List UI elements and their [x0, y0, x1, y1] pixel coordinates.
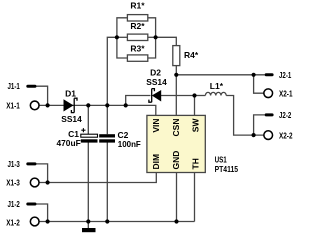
node J1-2 / ground rail: [46, 219, 50, 223]
svg-text:SS14: SS14: [61, 114, 82, 124]
wire resistor bank right rail: [148, 18, 156, 58]
node D2 branch / main rail: [124, 103, 128, 107]
wire C2 top lead: [106, 105, 108, 134]
wire node to J2-1: [176, 74, 264, 76]
svg-text:R3*: R3*: [130, 43, 145, 53]
wire J2-1 node down to X2-1: [254, 75, 265, 93]
svg-text:SS14: SS14: [146, 77, 167, 87]
svg-text:TH: TH: [191, 158, 201, 169]
wire C1 bottom lead to ground rail: [87, 143, 89, 222]
diode D2 SS14: [146, 67, 167, 102]
svg-text:D2: D2: [150, 67, 161, 77]
svg-text:100nF: 100nF: [118, 139, 141, 149]
wire CSN vertical: [175, 75, 177, 116]
svg-text:J2-1: J2-1: [279, 70, 291, 80]
pad X2-1: [264, 89, 293, 99]
node J1-3 / DIM: [46, 180, 50, 184]
wire J1-3 to DIM line: [37, 164, 48, 183]
IC US1 PT4115: [147, 115, 238, 174]
pad X2-2: [264, 130, 293, 140]
pin J2-1: [266, 70, 291, 80]
svg-text:J2-2: J2-2: [279, 110, 291, 120]
svg-text:X2-2: X2-2: [279, 130, 293, 140]
resistor R4: [173, 46, 199, 66]
svg-text:US1: US1: [215, 155, 227, 165]
node J2-1 / X2-1: [252, 73, 256, 77]
pad X1-2: [6, 217, 39, 227]
svg-text:PT4115: PT4115: [215, 164, 239, 174]
resistor R3: [127, 43, 147, 61]
node J2-2 / X2-2: [252, 133, 256, 137]
svg-text:J1-3: J1-3: [8, 159, 20, 169]
wire J2-2 to X2-2 node: [254, 115, 265, 135]
diode D1 SS14: [61, 89, 82, 125]
pin J1-2: [8, 199, 36, 209]
wire bank left drop to main rail: [107, 37, 117, 105]
ground: [82, 228, 96, 232]
wire J1-1 to main rail: [37, 86, 48, 105]
pad X1-3: [6, 178, 39, 188]
svg-text:R2*: R2*: [130, 21, 145, 31]
svg-text:SW: SW: [191, 118, 201, 133]
wire R2 right lead: [148, 36, 156, 38]
svg-text:CSN: CSN: [171, 119, 181, 137]
svg-text:J1-2: J1-2: [8, 199, 20, 209]
svg-text:X1-1: X1-1: [6, 100, 20, 110]
svg-text:X2-1: X2-1: [279, 89, 293, 99]
wire C1 top lead: [87, 105, 89, 134]
wire SW vertical: [194, 96, 196, 116]
wire L1 left stub: [195, 95, 206, 97]
node C1 / main rail: [86, 103, 90, 107]
wire main VIN rail from X1-1 to VIN pin: [39, 105, 156, 115]
wire J1-2 to ground rail: [37, 204, 48, 222]
wire R2 left lead: [117, 36, 128, 38]
wire DIM pin to X1-3: [39, 173, 157, 183]
resistor R1: [127, 1, 147, 21]
node bank right: [154, 35, 158, 39]
wire bank to R4 top: [156, 37, 177, 45]
svg-text:VIN: VIN: [151, 119, 161, 133]
svg-text:X1-2: X1-2: [6, 217, 20, 227]
svg-text:R4*: R4*: [184, 50, 199, 60]
resistor R2: [127, 21, 147, 40]
wire GND pin to ground rail: [176, 173, 178, 222]
svg-text:GND: GND: [171, 151, 181, 170]
wire R4 bottom to node: [175, 66, 177, 75]
node C2 / ground rail: [105, 219, 109, 223]
svg-text:D1: D1: [65, 89, 76, 99]
node R4 bottom / CSN: [174, 73, 178, 77]
pin J1-1: [8, 81, 36, 91]
wire ground symbol stub: [87, 222, 89, 229]
node C2+bank / main rail: [105, 103, 109, 107]
svg-text:J1-1: J1-1: [8, 81, 20, 91]
wire TH pin to ground rail: [194, 173, 196, 222]
capacitor C2 100nF: [99, 130, 141, 149]
node bank left: [115, 35, 119, 39]
capacitor C1 470uF: [57, 128, 98, 148]
wire resistor bank left rail: [117, 18, 128, 58]
svg-text:R1*: R1*: [130, 1, 145, 11]
node GND pin / ground rail: [174, 219, 178, 223]
node C1 / ground rail: [86, 219, 90, 223]
node J1-1 / main rail: [46, 103, 50, 107]
wire D2 cathode branch from main rail: [126, 96, 151, 106]
svg-text:X1-3: X1-3: [6, 178, 20, 188]
pin J2-2: [266, 110, 291, 120]
inductor L1: [205, 81, 226, 95]
wire D2 anode to SW node: [160, 95, 194, 97]
pad X1-1: [6, 100, 39, 110]
wire L1 right to X2-2 node: [226, 96, 264, 136]
wire ground rail: [39, 221, 195, 223]
pin J1-3: [8, 159, 36, 169]
svg-text:L1*: L1*: [210, 81, 224, 91]
wire C2 bottom lead to ground rail: [106, 143, 108, 222]
svg-text:470uF: 470uF: [57, 138, 81, 148]
svg-text:DIM: DIM: [151, 154, 161, 170]
node SW / L1: [192, 93, 196, 97]
